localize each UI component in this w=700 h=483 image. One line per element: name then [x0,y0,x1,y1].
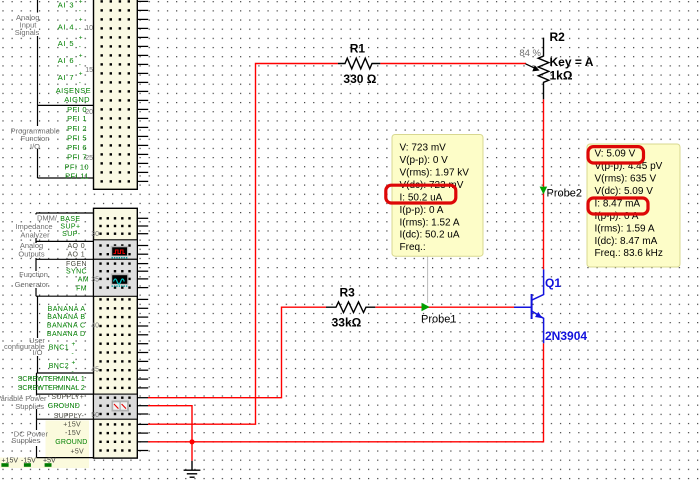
svg-text:Outputs: Outputs [18,249,45,258]
svg-text:FM: FM [76,285,87,292]
svg-text:+: + [72,360,76,367]
svg-text:35: 35 [91,276,99,283]
svg-text:AO 0: AO 0 [67,243,85,250]
svg-text:15: 15 [85,67,93,74]
svg-text:BANANA C: BANANA C [47,323,86,330]
svg-text:25: 25 [85,155,93,162]
highlight area DC power supplies [0,421,89,469]
svg-text:SYNC: SYNC [66,269,87,276]
probe Probe1 [421,303,456,326]
svg-text:PFI 2: PFI 2 [67,124,87,133]
power terminal +5V [43,457,56,467]
svg-text:GROUND: GROUND [48,403,80,410]
svg-text:SUPPLY+: SUPPLY+ [51,394,84,401]
svg-text:R2: R2 [550,30,566,44]
svg-text:AI 5: AI 5 [58,39,75,48]
svg-text:-: - [79,80,81,87]
connector strip (bottom section, DMM/AO/FGEN/supplies pins) [94,208,149,458]
svg-text:I(p-p): 0 A: I(p-p): 0 A [400,205,444,216]
svg-text:PFI 6: PFI 6 [67,143,87,152]
svg-text:V: 723 mV: V: 723 mV [400,143,447,154]
svg-text:R1: R1 [350,41,366,55]
pin numbers [85,25,99,419]
wire R2 bottom to Q1 collector [543,99,545,269]
svg-text:SUP-: SUP- [62,231,81,238]
annotation ring I: 50.2 uA [386,185,456,203]
svg-text:I/O: I/O [30,142,40,151]
pin name labels [18,1,91,456]
svg-text:+: + [72,341,76,348]
wire ground net: GROUND pin to Q1 emitter [148,343,544,442]
svg-text:V(p-p): 0 V: V(p-p): 0 V [400,155,449,166]
svg-text:+: + [79,17,83,24]
analog output waveform icon [111,246,129,259]
svg-text:Analyzer: Analyzer [20,230,50,239]
annotation ring I: 8.47 mA [588,198,648,214]
probe leader line [427,256,429,303]
power terminal -15V [21,457,36,467]
svg-text:Supplies: Supplies [11,436,40,445]
svg-text:+: + [79,35,83,42]
svg-text:Q1: Q1 [545,276,561,290]
section bracket lines [36,0,94,458]
wire SUPPLY+ pin to R3 (net 2) [148,307,326,398]
svg-text:AI 7: AI 7 [58,73,75,82]
variable power supply icon [112,401,130,412]
svg-text:AO 1: AO 1 [67,252,85,259]
svg-text:SUP+: SUP+ [60,224,80,231]
wire ground stub [191,442,193,461]
svg-text:-: - [72,350,74,357]
svg-text:+15V: +15V [63,421,81,428]
svg-text:30: 30 [91,231,99,238]
svg-text:SCREWTERMINAL 1: SCREWTERMINAL 1 [18,376,85,383]
wire +15V pin to R1 (net 1) [148,64,338,425]
wire R3 to Q1 base [375,306,514,308]
svg-text:SUPPLY-: SUPPLY- [54,413,85,420]
svg-text:BANANA A: BANANA A [48,306,86,313]
svg-text:I(dc): 8.47 mA: I(dc): 8.47 mA [595,236,658,247]
svg-text:AI 3: AI 3 [58,1,75,10]
svg-text:-: - [72,369,74,376]
svg-text:20: 20 [85,109,93,116]
probe Probe2 [540,187,582,200]
svg-text:Signals: Signals [15,28,40,37]
svg-text:PFI 1: PFI 1 [67,114,87,123]
svg-text:I(dc): 50.2 uA: I(dc): 50.2 uA [400,230,460,241]
svg-text:BASE: BASE [60,216,80,223]
svg-text:I: 8.47 mA: I: 8.47 mA [595,198,641,209]
svg-text:AIGND: AIGND [64,95,90,104]
svg-text:1kΩ: 1kΩ [550,69,573,83]
svg-text:AM: AM [78,276,89,283]
potentiometer R2 [526,38,549,100]
measurement tooltip Probe1 [392,135,483,257]
svg-text:SCREWTERMINAL 2: SCREWTERMINAL 2 [18,385,85,392]
svg-text:40: 40 [91,323,99,330]
section labels (gray) [0,13,60,445]
svg-text:AI 4: AI 4 [58,23,75,32]
svg-text:10: 10 [85,25,93,32]
svg-text:I(rms): 1.52 A: I(rms): 1.52 A [400,217,460,228]
svg-text:BANANA B: BANANA B [47,314,85,321]
svg-text:Key = A: Key = A [550,55,594,69]
resistor R3 [326,302,375,313]
svg-text:-: - [79,62,81,69]
svg-text:-: - [79,44,81,51]
svg-text:V: 5.09 V: V: 5.09 V [595,149,636,160]
measurement tooltip Probe2 [587,144,680,267]
svg-text:+: + [79,53,83,60]
svg-text:BNC2: BNC2 [49,363,69,370]
svg-text:BNC1: BNC1 [49,345,69,352]
wire R1 to R2 wiper [380,63,526,65]
svg-text:AISENSE: AISENSE [56,86,91,95]
svg-text:2N3904: 2N3904 [545,329,587,343]
svg-text:Probe1: Probe1 [421,314,456,326]
svg-text:PFI 5: PFI 5 [67,134,87,143]
svg-text:33kΩ: 33kΩ [332,316,362,330]
svg-text:V(rms): 1.97 kV: V(rms): 1.97 kV [400,167,470,178]
svg-text:V(dc): 5.09 V: V(dc): 5.09 V [595,186,654,197]
power terminal +15V [1,457,18,467]
svg-text:Supplies: Supplies [15,402,44,411]
svg-text:Freq.: 83.6 kHz: Freq.: 83.6 kHz [595,248,663,259]
wire variable-supply GROUND pin to ground net [148,406,192,442]
annotation ring V: 5.09 V [588,147,644,163]
junction ground node [189,439,194,444]
ground [184,461,201,477]
svg-text:AI 6: AI 6 [58,56,75,65]
svg-text:I/O: I/O [32,348,42,357]
svg-text:R3: R3 [340,285,356,299]
svg-text:-15V: -15V [65,430,81,437]
svg-text:GROUND: GROUND [55,439,87,446]
svg-text:+: + [79,71,83,78]
svg-text:FGEN: FGEN [66,261,87,268]
svg-text:330 Ω: 330 Ω [343,72,376,86]
svg-text:+: + [79,0,83,6]
svg-text:-: - [79,8,81,15]
svg-text:Generator: Generator [15,280,49,289]
svg-text:I(rms): 1.59 A: I(rms): 1.59 A [595,223,655,234]
svg-text:PFI 11: PFI 11 [65,172,89,181]
svg-text:-: - [79,26,81,33]
svg-text:PFI 7: PFI 7 [67,153,87,162]
svg-text:BANANA D: BANANA D [47,331,86,338]
function generator waveform icon [111,274,129,287]
svg-text:V(rms): 635 V: V(rms): 635 V [595,174,657,185]
svg-text:50: 50 [91,412,99,419]
transistor Q1 [514,269,544,343]
svg-text:Probe2: Probe2 [547,188,582,200]
svg-text:Function: Function [19,270,48,279]
svg-text:Freq.:: Freq.: [400,242,426,253]
svg-text:PFI 10: PFI 10 [65,162,90,171]
svg-text:+5V: +5V [70,448,84,455]
svg-text:PFI 0: PFI 0 [67,105,87,114]
svg-text:84 %: 84 % [519,48,541,59]
connector strip XSC (top section, NI ELVIS AI/PFI pins) [94,0,149,189]
resistor R1 [338,58,380,69]
svg-text:45: 45 [91,366,99,373]
